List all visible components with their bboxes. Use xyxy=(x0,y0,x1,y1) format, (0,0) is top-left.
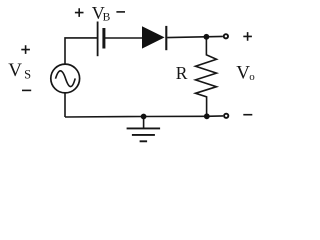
svg-text:V: V xyxy=(236,63,250,84)
svg-text:S: S xyxy=(24,68,31,82)
svg-text:V: V xyxy=(8,60,22,81)
svg-text:o: o xyxy=(249,71,255,83)
svg-text:B: B xyxy=(103,12,111,24)
svg-text:R: R xyxy=(176,63,188,83)
